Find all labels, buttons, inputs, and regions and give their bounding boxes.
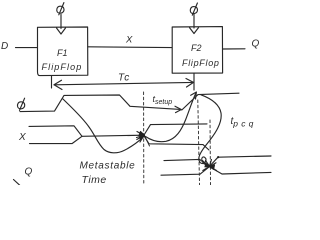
arrowheads at X transition crossing [137, 132, 144, 140]
svg-text:F2: F2 [191, 43, 202, 53]
clock wedge pin of F1 [57, 28, 66, 34]
X waveform old-value bottom rail [30, 136, 83, 143]
svg-text:Metastable: Metastable [80, 161, 136, 172]
svg-text:X: X [18, 132, 26, 143]
clock phi symbol over F1 [57, 3, 66, 34]
dashed guide line at Q resolution [209, 120, 212, 185]
clock wedge pin of F2 [190, 28, 199, 34]
wire X between F1 and F2 [88, 46, 172, 49]
annotation arc from clock edge 1 to X transition [63, 99, 143, 153]
svg-text:Q: Q [252, 39, 260, 50]
stray pencil mark bottom-left [14, 180, 21, 186]
Tc dimension arrow between clock edges [52, 73, 195, 91]
wire D input [16, 47, 38, 49]
arrow line [54, 82, 193, 84]
timing label phi [17, 102, 24, 109]
wire Q output [223, 48, 245, 50]
drop tick left [51, 76, 53, 88]
Q old-value top rail [164, 159, 209, 166]
drop tick right [193, 74, 195, 91]
left arrowhead [54, 80, 62, 89]
X mid transition line [82, 135, 144, 136]
wire [60, 15, 62, 29]
Q old-value bottom rail [161, 167, 209, 175]
X new-value top rail [144, 124, 207, 135]
svg-text:D: D [1, 41, 8, 52]
X new-value bottom rail [144, 136, 209, 150]
svg-text:Q: Q [25, 167, 33, 178]
junction dot on Q rail [217, 156, 219, 158]
arrowheads at Q transition crossing [203, 163, 210, 171]
svg-text:FlipFlop: FlipFlop [42, 62, 83, 72]
flip-flop F1 [38, 27, 88, 76]
annotation arc from X transition to clock edge 2 [146, 93, 197, 142]
svg-text:FlipFlop: FlipFlop [182, 58, 220, 68]
svg-text:X: X [125, 35, 133, 46]
dashed guide line at X transition [143, 92, 145, 185]
dashed guide line at clock edge 2 [198, 100, 200, 185]
right arrowhead [186, 79, 194, 88]
clock rising edge 2 [182, 93, 239, 110]
svg-text:tpcq: tpcq [231, 116, 257, 129]
annotation arc from clock edge 2 to Q transition [199, 95, 221, 164]
flip-flop F2 [172, 27, 222, 74]
clock phi symbol over F2 [190, 3, 199, 34]
svg-text:Time: Time [82, 174, 107, 185]
svg-text:F1: F1 [57, 48, 68, 58]
X waveform old-value top rail [29, 126, 82, 137]
clock waveform phi [20, 95, 181, 112]
svg-text:tsetup: tsetup [153, 94, 173, 106]
svg-text:Tc: Tc [118, 73, 130, 84]
t_setup arrowhead at clock edge base [175, 106, 181, 112]
Q new-value bottom rail [210, 167, 271, 174]
wire [193, 14, 195, 28]
Q new-value top rail [210, 156, 271, 166]
